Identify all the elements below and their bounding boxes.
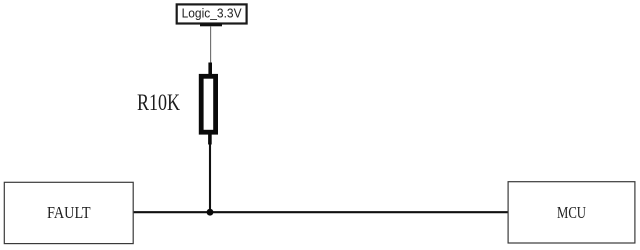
net name Logic_3.3V	[182, 7, 243, 21]
svg-text:FAULT: FAULT	[47, 203, 91, 222]
power flag Logic_3.3V box	[177, 4, 247, 23]
label FAULT	[47, 203, 91, 222]
junction dot	[207, 209, 214, 216]
svg-text:Logic_3.3V: Logic_3.3V	[182, 7, 243, 21]
wire resistor to junction	[209, 144, 211, 212]
resistor R1 body	[201, 76, 215, 132]
power flag bar	[200, 23, 222, 26]
svg-text:R10K: R10K	[137, 90, 180, 115]
resistor value label R10K	[137, 90, 180, 115]
resistor R1 top pin	[208, 63, 212, 76]
resistor R1 bottom pin	[208, 134, 212, 145]
svg-text:MCU: MCU	[557, 203, 586, 222]
block MCU box	[508, 182, 635, 243]
wire from power flag to resistor	[210, 26, 212, 64]
block FAULT box	[4, 182, 133, 243]
label MCU	[557, 203, 586, 222]
wire FAULT to MCU	[134, 211, 509, 213]
